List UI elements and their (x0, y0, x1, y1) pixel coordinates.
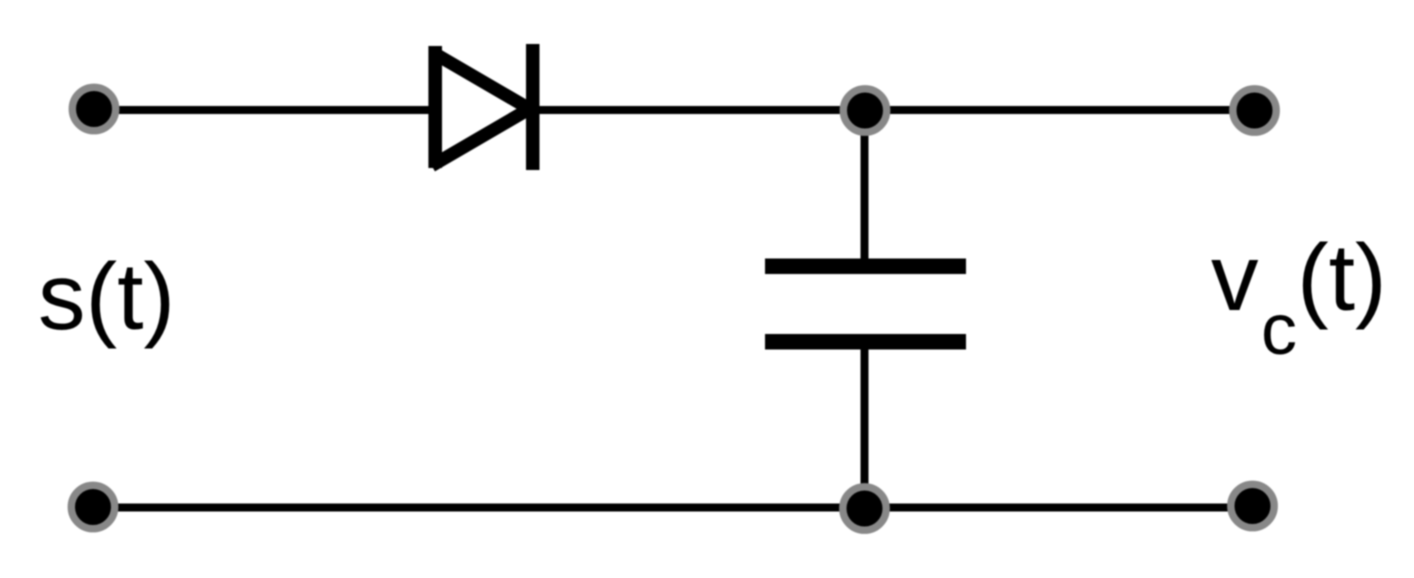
svg-text:v: v (1211, 225, 1259, 331)
svg-text:c: c (1261, 290, 1297, 370)
svg-text:(t): (t) (1297, 225, 1387, 331)
svg-text:s(t): s(t) (38, 244, 175, 350)
